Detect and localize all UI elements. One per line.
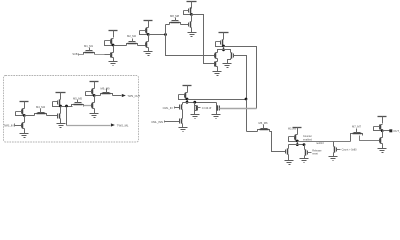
svg-text:Count > 0x80: Count > 0x80 <box>342 149 358 152</box>
wire link junction to cascode drain bus <box>187 100 189 103</box>
capacitor C2 (MOS capacitor) <box>216 106 218 111</box>
wire MN5B gate stub <box>308 152 312 154</box>
transistor M5 (series pass MOS, box stage2 input) <box>74 104 83 106</box>
svg-text:CML_INN: CML_INN <box>151 120 163 124</box>
wire riser to series M8 <box>165 25 167 35</box>
wire feedback corner to series M6 <box>247 131 258 133</box>
pin OUT square marker <box>389 129 392 132</box>
svg-text:C=43.3f: C=43.3f <box>202 106 212 110</box>
svg-text:M2_M2: M2_M2 <box>127 34 136 38</box>
wire comparator out bus <box>298 141 351 143</box>
wire M7 right lead drop to MN6 gate <box>360 136 380 141</box>
wire TWS_M tap down and right <box>66 107 68 126</box>
wire to right pair drain <box>224 50 231 53</box>
node drain bus left <box>296 143 299 146</box>
wire M5 to MNL2 gate <box>84 105 92 107</box>
wire SUB_IN to series gate M1 <box>79 54 84 56</box>
wire stage0 out to series M2 <box>114 45 127 47</box>
ground moscap C1 <box>191 114 200 116</box>
wire bus to MN5A drain <box>288 145 290 149</box>
transistor M2 (series pass MOS, stage1 input) <box>128 43 137 45</box>
node pair drain junction <box>222 48 225 51</box>
wire M2 to MN1 gate <box>138 45 146 47</box>
svg-text:CML_IN: CML_IN <box>163 106 173 110</box>
wire M1 to M0 gate <box>95 54 111 56</box>
transistor MN1 (NMOS driver, stage1) <box>146 42 148 48</box>
node cascode bus A <box>186 101 189 104</box>
transistor M1 (series pass MOS, stage0 input) <box>85 52 94 54</box>
transistor M8 (series pass MOS, stage2 input) <box>171 22 180 24</box>
wire M4 to MNL1 gate <box>47 115 58 117</box>
transistor MN5A (comparator input NMOS) <box>287 149 289 155</box>
svg-text:OUT_P: OUT_P <box>393 129 400 133</box>
wire MN5A source to ground <box>288 155 290 161</box>
wire moscap to ground <box>194 111 196 115</box>
node drain bus right <box>303 143 306 146</box>
wire MN5B source to ground <box>304 156 306 159</box>
wire box stage1 out <box>61 106 73 108</box>
transistor MN4A (cascode top NMOS) <box>181 105 183 110</box>
node stage1-out junction <box>164 33 167 36</box>
wire stage1 out down to diff pair left gate <box>166 35 215 56</box>
wire cascode drain bus <box>183 102 217 104</box>
transistor MN0 (NMOS driver, stage0) <box>111 53 113 58</box>
node feedback junction <box>245 98 248 101</box>
node TWS_M tap <box>65 105 68 108</box>
ground moscap C2 <box>212 114 221 116</box>
ground right pair <box>223 63 232 65</box>
transistor MP2 (diode PMOS load, stage2) <box>187 1 197 3</box>
wire box stage0 out to series M4 <box>25 115 35 117</box>
wire CML_IN to MN4A gate <box>175 107 180 109</box>
transistor MPL0 (diode PMOS load, box stage0) <box>20 101 29 103</box>
subcircuit boundary box <box>4 76 139 143</box>
transistor MN3A (left pair NMOS) <box>215 53 217 59</box>
wire moscap C2 to ground <box>216 111 218 115</box>
svg-text:net013: net013 <box>316 142 324 145</box>
transistor MPL2 (diode PMOS load, box stage2) <box>90 81 99 83</box>
svg-text:enabled: enabled <box>303 138 313 141</box>
transistor MN6 (NMOS driver, output stage) <box>380 138 382 144</box>
svg-text:M3_M3: M3_M3 <box>288 128 297 131</box>
ground cascode <box>179 127 188 129</box>
wire cascode link <box>182 110 184 119</box>
pin TWS_M arrow <box>111 123 115 126</box>
wire stage1 output node <box>149 34 166 36</box>
transistor MP6 (diode PMOS load, output stage) <box>378 116 387 118</box>
wire link down to drain bus <box>297 142 299 145</box>
wire to left pair drain <box>218 50 224 53</box>
svg-text:M8_M8: M8_M8 <box>170 14 179 18</box>
label C=43.3f <box>198 107 201 109</box>
ground MN5A <box>285 160 294 162</box>
wire TWS_IN to MN7 gate <box>15 125 22 127</box>
capacitor C1 (MOS capacitor) <box>194 106 196 111</box>
transistor M9 (series pass MOS, box output) <box>102 93 111 95</box>
wire M9 to output pin <box>113 95 122 97</box>
transistor MNL1 (NMOS driver, box stage1) <box>59 114 61 119</box>
svg-text:TWS_OUT: TWS_OUT <box>127 94 140 98</box>
transistor M4 (series pass MOS, box stage1 input) <box>37 113 46 115</box>
transistor MN3T (tail NMOS) <box>215 62 217 67</box>
svg-text:M6_M6: M6_M6 <box>259 121 268 125</box>
wire left pair source to tail <box>217 59 219 62</box>
wire MN5C gate stub <box>337 149 341 151</box>
svg-text:reset: reset <box>312 153 318 156</box>
svg-text:M7_M7: M7_M7 <box>352 125 361 129</box>
transistor M6 (series pass MOS, comparator input) <box>260 129 269 131</box>
transistor MN4B (cascode bottom NMOS) <box>181 119 183 124</box>
ground tail <box>213 71 222 73</box>
wire comparator drain bus <box>289 144 305 146</box>
ground MN5C <box>329 156 338 158</box>
transistor MP5 (diode PMOS load, comparator) <box>293 127 302 129</box>
transistor MP0 (diode PMOS load, stage0) <box>109 30 118 32</box>
transistor MN5B (reset NMOS, mirrored) <box>305 150 307 156</box>
wire bus to cascode drain <box>182 103 184 105</box>
wire M8 to MN2 gate <box>181 24 189 26</box>
wire tail source to ground <box>217 67 219 72</box>
transistor M7 (series pass MOS, output stage input) <box>353 133 362 135</box>
wire MN5C source to ground <box>333 153 335 157</box>
wire middle out bus <box>188 99 247 101</box>
transistor MP4 (diode PMOS load, middle stage) <box>183 85 192 87</box>
transistor MN3B (right pair NMOS, mirrored) <box>231 53 233 59</box>
transistor MNL0 (NMOS driver, box stage0) <box>22 123 24 129</box>
svg-text:M5_M5: M5_M5 <box>73 96 82 100</box>
wire stage3 junction to pair drains <box>223 47 225 50</box>
transistor MPL1 (diode PMOS load, box stage1) <box>56 92 66 94</box>
wire right pair gate to feedback column <box>234 56 247 100</box>
pin TWS_OUT arrow <box>122 94 126 97</box>
wire stage3 output right and down <box>224 47 257 109</box>
wire stage2 out right and down to tail gate <box>192 15 215 64</box>
transistor MP1 (diode PMOS load, stage1) <box>144 20 153 22</box>
svg-text:M4_M4: M4_M4 <box>36 105 45 109</box>
wire comparator bus jog up to series M7 <box>350 136 352 142</box>
wire output to pin <box>383 130 390 132</box>
wire right pair source to ground <box>228 59 231 64</box>
svg-text:TWS_IN: TWS_IN <box>3 123 13 127</box>
svg-text:M1_M1: M1_M1 <box>84 44 93 48</box>
wire M6 to comparator gate <box>270 132 286 152</box>
svg-text:SUB: SUB <box>72 53 77 56</box>
ground MN5B <box>300 158 309 160</box>
wire feedback column down <box>246 100 248 132</box>
svg-text:TWS_ML: TWS_ML <box>117 123 129 127</box>
wire cascode source to ground <box>182 124 184 128</box>
wire CML_INN to MN4B gate <box>165 121 180 123</box>
transistor MN2 (NMOS driver, stage2) <box>190 22 192 28</box>
transistor MNL2 (NMOS driver, box stage2) <box>92 103 94 109</box>
wire bus end down to moscap C2 <box>216 103 218 106</box>
node moscap tap <box>193 101 196 104</box>
wire bus to MN5B drain <box>304 145 306 150</box>
transistor MN5C (count NMOS, mirrored) <box>334 147 336 153</box>
wire tap to MN5C drain <box>333 142 335 147</box>
wire C2 gate to stage3 output (highlighted net) <box>220 108 257 110</box>
wire moscap tap down <box>194 103 196 106</box>
svg-text:M9_M9: M9_M9 <box>101 86 110 90</box>
wire box stage2 out to series M9 <box>95 95 101 97</box>
transistor MP3 (diode PMOS load, stage3) <box>219 32 229 34</box>
